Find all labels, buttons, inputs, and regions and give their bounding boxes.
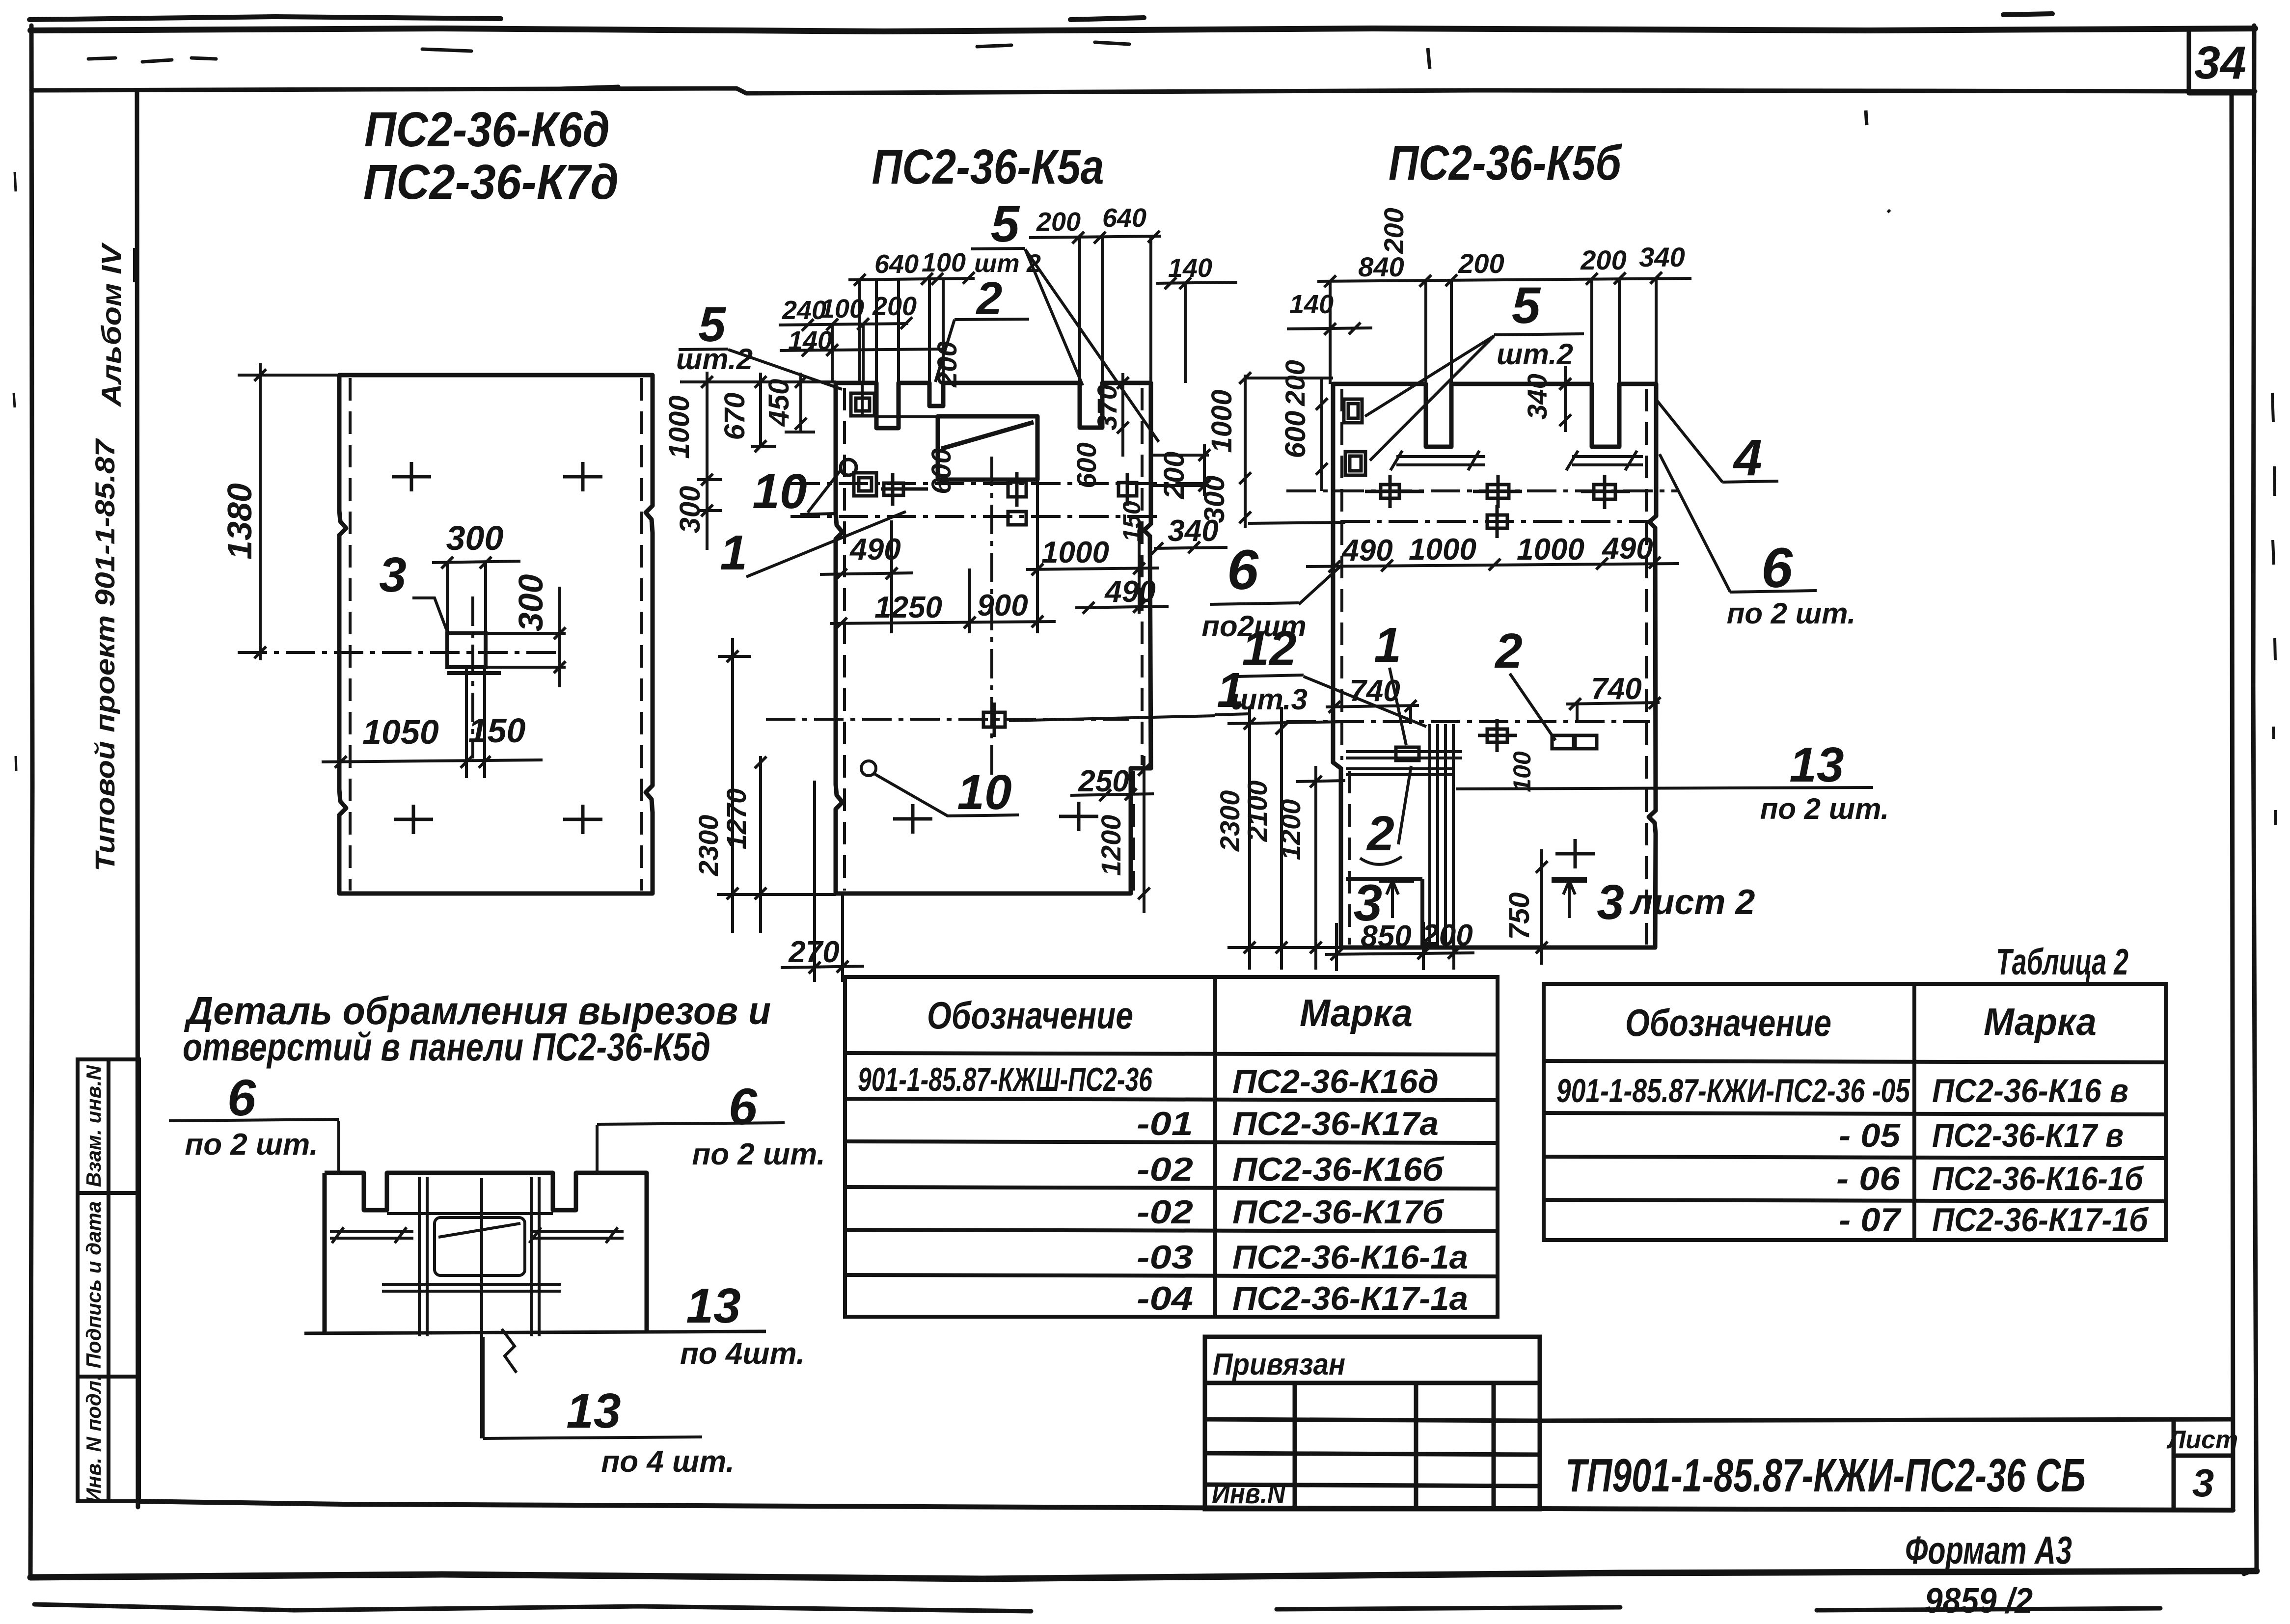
top band second line — [31, 88, 2255, 93]
outer border top — [30, 28, 2255, 31]
svg-text:Марка: Марка — [1984, 1000, 2097, 1043]
svg-text:ПС2-36-К16б: ПС2-36-К16б — [1232, 1151, 1445, 1188]
svg-text:ПС2-36-К17 в: ПС2-36-К17 в — [1932, 1117, 2124, 1154]
svg-text:640: 640 — [1102, 203, 1146, 233]
svg-text:ПС2-36-К17-1а: ПС2-36-К17-1а — [1232, 1280, 1468, 1317]
svg-text:2: 2 — [976, 272, 1003, 325]
svg-text:300: 300 — [446, 519, 504, 557]
svg-text:13: 13 — [686, 1278, 740, 1333]
svg-text:-03: -03 — [1137, 1239, 1193, 1276]
edge squares — [1344, 399, 1630, 538]
svg-text:140: 140 — [1289, 290, 1334, 319]
svg-text:34: 34 — [2194, 37, 2246, 89]
svg-text:Взам. инв.N: Взам. инв.N — [82, 1064, 105, 1187]
plates bottom — [1396, 719, 1597, 760]
svg-text:шт.2: шт.2 — [1497, 338, 1573, 371]
svg-text:1380: 1380 — [220, 483, 259, 560]
svg-text:ПС2-36-К5а: ПС2-36-К5а — [872, 139, 1104, 194]
svg-text:901-1-85.87-КЖШ-ПС2-36: 901-1-85.87-КЖШ-ПС2-36 — [858, 1061, 1153, 1098]
svg-text:ПС2-36-К5б: ПС2-36-К5б — [1389, 135, 1623, 190]
svg-text:-01: -01 — [1137, 1105, 1193, 1142]
svg-text:ПС2-36-К17б: ПС2-36-К17б — [1232, 1193, 1445, 1231]
IV underline — [133, 248, 136, 282]
svg-text:ПС2-36-К17-1б: ПС2-36-К17-1б — [1932, 1201, 2149, 1239]
svg-text:ПС2-36-К16-1а: ПС2-36-К16-1а — [1232, 1239, 1468, 1276]
detail body — [325, 1173, 647, 1332]
svg-text:Подпись и дата: Подпись и дата — [82, 1201, 105, 1368]
svg-text:ПС2-36-К7д: ПС2-36-К7д — [363, 155, 619, 210]
svg-text:Лист: Лист — [2166, 1426, 2238, 1454]
svg-text:4: 4 — [1733, 429, 1762, 487]
svg-text:ПС2-36-К16-1б: ПС2-36-К16-1б — [1932, 1160, 2144, 1197]
svg-text:640: 640 — [874, 249, 919, 279]
svg-text:670: 670 — [719, 393, 751, 440]
svg-text:Обозначение: Обозначение — [927, 994, 1133, 1037]
panel outline with top slots — [836, 383, 1151, 893]
svg-text:-02: -02 — [1137, 1151, 1193, 1188]
svg-text:200: 200 — [1458, 248, 1504, 279]
inner top line + plate bars — [387, 1212, 553, 1215]
svg-text:12: 12 — [1242, 621, 1296, 676]
svg-text:370: 370 — [1091, 384, 1122, 430]
svg-text:850: 850 — [1361, 920, 1411, 953]
svg-text:740: 740 — [1349, 674, 1400, 708]
svg-text:Альбом IV: Альбом IV — [96, 242, 127, 408]
svg-text:200: 200 — [872, 292, 917, 321]
svg-text:740: 740 — [1591, 672, 1641, 706]
svg-text:750: 750 — [1503, 893, 1535, 940]
svg-text:100: 100 — [1508, 751, 1536, 792]
outer border right — [2244, 26, 2257, 1574]
svg-text:ПС2-36-К6д: ПС2-36-К6д — [364, 102, 610, 157]
vertical rebar pairs — [419, 1177, 539, 1336]
svg-text:- 07: - 07 — [1839, 1201, 1902, 1239]
inner frame bottom — [137, 1501, 2233, 1510]
svg-text:6: 6 — [729, 1078, 758, 1136]
left table — [845, 975, 1498, 1317]
embedded squares / plates — [841, 393, 1137, 737]
svg-text:ПС2-36-К16 в: ПС2-36-К16 в — [1932, 1072, 2128, 1110]
svg-text:5: 5 — [1512, 277, 1541, 334]
detail rect — [447, 633, 501, 673]
svg-text:150: 150 — [468, 711, 526, 750]
svg-text:100: 100 — [922, 248, 966, 277]
svg-text:1: 1 — [720, 525, 747, 580]
svg-text:340: 340 — [1639, 242, 1685, 272]
svg-text:490: 490 — [1601, 532, 1653, 566]
svg-text:6: 6 — [1227, 539, 1259, 601]
svg-text:200: 200 — [931, 341, 962, 387]
ground line — [304, 1331, 766, 1333]
svg-text:1200: 1200 — [1275, 799, 1306, 861]
svg-text:3: 3 — [1597, 875, 1624, 930]
centerline vertical through detail — [471, 596, 474, 758]
svg-text:- 06: - 06 — [1836, 1160, 1901, 1197]
svg-text:шт.3: шт.3 — [1231, 683, 1308, 716]
svg-text:1000: 1000 — [663, 395, 695, 459]
svg-text:по 2 шт.: по 2 шт. — [1727, 597, 1856, 630]
left margin small marks — [14, 172, 16, 771]
svg-text:по 4шт.: по 4шт. — [680, 1337, 805, 1371]
center line — [480, 1178, 483, 1438]
svg-text:900: 900 — [977, 589, 1028, 623]
svg-text:2: 2 — [1494, 623, 1523, 678]
svg-text:2300: 2300 — [1214, 790, 1245, 852]
svg-text:13: 13 — [1789, 737, 1844, 792]
svg-text:600: 600 — [926, 448, 956, 494]
outer border bottom — [30, 1571, 2257, 1579]
svg-text:по 2 шт.: по 2 шт. — [185, 1128, 318, 1162]
sheet No box — [2189, 32, 2254, 93]
inner frame left — [137, 90, 138, 1507]
plates on centerline — [1381, 485, 1399, 498]
panel outline — [339, 375, 653, 893]
svg-text:2100: 2100 — [1242, 781, 1273, 842]
svg-text:1000: 1000 — [1041, 536, 1109, 569]
plus marks — [392, 462, 602, 834]
svg-text:10: 10 — [752, 464, 807, 519]
stamp column — [78, 1059, 139, 1501]
inner dashed edge lines — [349, 378, 352, 891]
svg-text:100: 100 — [820, 294, 864, 324]
svg-text:200: 200 — [1036, 207, 1081, 237]
svg-text:- 05: - 05 — [1839, 1117, 1901, 1154]
svg-text:ТП901-1-85.87-КЖИ-ПС2-36 СБ: ТП901-1-85.87-КЖИ-ПС2-36 СБ — [1565, 1449, 2086, 1502]
svg-text:340: 340 — [1522, 374, 1553, 419]
svg-text:ПС2-36-К16д: ПС2-36-К16д — [1232, 1063, 1439, 1100]
svg-text:901-1-85.87-КЖИ-ПС2-36 -05: 901-1-85.87-КЖИ-ПС2-36 -05 — [1556, 1072, 1910, 1110]
svg-text:200: 200 — [1280, 360, 1310, 406]
centerline horizontal — [238, 651, 557, 654]
svg-text:Таблица 2: Таблица 2 — [1996, 941, 2128, 982]
svg-text:3: 3 — [2192, 1461, 2214, 1505]
inner frame right — [2232, 93, 2233, 1508]
svg-text:-04: -04 — [1137, 1280, 1193, 1317]
svg-text:490: 490 — [1104, 575, 1155, 609]
right margin scan dashes — [2272, 393, 2276, 825]
break zigzag — [502, 1329, 517, 1373]
label 10 bottom with circle — [861, 761, 876, 776]
window opening rect — [938, 416, 1037, 480]
svg-text:отверстий в панели ПС2-36-К5д: отверстий в панели ПС2-36-К5д — [183, 1025, 710, 1069]
svg-text:ПС2-36-К17а: ПС2-36-К17а — [1232, 1105, 1439, 1142]
inner dashed edges — [843, 388, 846, 891]
svg-text:1: 1 — [1374, 618, 1401, 673]
window — [435, 1218, 525, 1275]
top band dashes artifacts — [88, 42, 1129, 88]
outer border left — [30, 26, 32, 1577]
inner connector lines top-left — [862, 385, 938, 417]
svg-text:Типовой проект 901-1-85.87: Типовой проект 901-1-85.87 — [89, 438, 120, 871]
bars under slots — [1390, 451, 1643, 470]
svg-text:1000: 1000 — [1409, 533, 1476, 567]
svg-text:9859 /2: 9859 /2 — [1925, 1581, 2033, 1621]
svg-text:490: 490 — [1341, 534, 1392, 568]
inner cutout corner bottom-left — [1346, 879, 1422, 947]
svg-text:2300: 2300 — [693, 815, 724, 877]
svg-text:2: 2 — [1366, 806, 1394, 861]
svg-text:150: 150 — [1118, 501, 1145, 542]
svg-text:Марка: Марка — [1300, 991, 1413, 1034]
svg-text:по 4 шт.: по 4 шт. — [601, 1445, 734, 1479]
svg-text:450: 450 — [763, 379, 795, 427]
svg-text:13: 13 — [566, 1383, 621, 1438]
svg-text:по 2 шт.: по 2 шт. — [1760, 792, 1889, 825]
plus marks bottom — [893, 802, 1098, 834]
small artifacts — [1428, 48, 1890, 212]
svg-text:по 2 шт.: по 2 шт. — [692, 1137, 825, 1171]
centerlines — [791, 482, 1204, 485]
svg-text:200: 200 — [1421, 919, 1472, 952]
centerlines — [1286, 489, 1679, 492]
svg-text:10: 10 — [957, 765, 1011, 820]
svg-text:Обозначение: Обозначение — [1625, 1001, 1831, 1044]
svg-text:840: 840 — [1358, 251, 1404, 282]
svg-text:300: 300 — [512, 574, 550, 632]
svg-text:шт.2: шт.2 — [676, 343, 753, 376]
bottom scan artifact line — [34, 1604, 2160, 1611]
svg-text:лист 2: лист 2 — [1630, 883, 1755, 922]
small ticks — [332, 1227, 618, 1243]
svg-text:5: 5 — [991, 195, 1020, 253]
svg-text:-02: -02 — [1137, 1193, 1193, 1231]
svg-text:1000: 1000 — [1206, 389, 1238, 453]
svg-text:200: 200 — [1378, 208, 1409, 254]
horizontal double bars bottom — [1346, 752, 1462, 775]
svg-text:1050: 1050 — [362, 713, 439, 751]
svg-text:3: 3 — [379, 547, 407, 602]
svg-text:200: 200 — [1158, 452, 1190, 500]
rebar bundle vertical — [1430, 724, 1453, 947]
svg-text:6: 6 — [227, 1069, 256, 1127]
right table — [1544, 984, 2166, 1240]
svg-text:Формат А3: Формат А3 — [1905, 1528, 2072, 1572]
svg-text:Инв.N: Инв.N — [1212, 1478, 1286, 1510]
svg-text:200: 200 — [1580, 244, 1626, 275]
svg-text:Инв. N подл.: Инв. N подл. — [82, 1375, 105, 1503]
svg-text:1200: 1200 — [1095, 815, 1126, 876]
svg-text:600: 600 — [1071, 442, 1102, 488]
svg-text:1000: 1000 — [1517, 533, 1584, 567]
svg-text:600: 600 — [1280, 411, 1311, 459]
svg-text:1270: 1270 — [721, 788, 752, 850]
svg-text:1250: 1250 — [874, 591, 942, 624]
svg-text:Привязан: Привязан — [1213, 1348, 1345, 1381]
